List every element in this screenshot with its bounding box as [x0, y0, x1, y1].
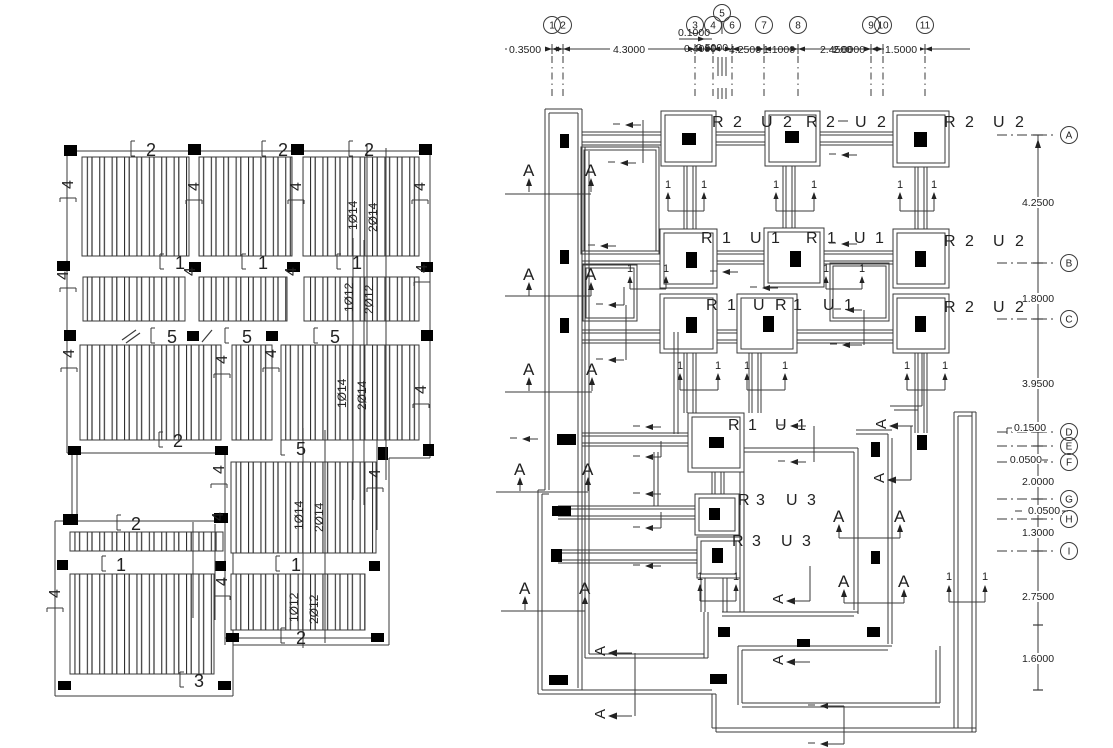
svg-text:0.1000: 0.1000	[678, 27, 710, 39]
svg-text:R: R	[944, 299, 956, 316]
svg-text:2: 2	[733, 114, 742, 131]
svg-text:2: 2	[364, 140, 374, 160]
svg-text:G: G	[1065, 495, 1073, 506]
svg-text:1Ø14: 1Ø14	[346, 200, 360, 230]
svg-text:5: 5	[167, 327, 177, 347]
svg-text:1: 1	[875, 230, 884, 247]
svg-text:R: R	[732, 533, 744, 550]
svg-text:2: 2	[278, 140, 288, 160]
svg-text:2.0000: 2.0000	[833, 44, 865, 56]
svg-text:4: 4	[186, 182, 203, 191]
svg-text:5: 5	[330, 327, 340, 347]
svg-text:7: 7	[761, 21, 767, 32]
svg-text:A: A	[514, 460, 526, 479]
svg-text:1: 1	[677, 360, 683, 372]
svg-text:4: 4	[263, 349, 280, 358]
svg-text:1: 1	[793, 297, 802, 314]
svg-text:U: U	[753, 297, 765, 314]
svg-text:U: U	[750, 230, 762, 247]
svg-text:3.9500: 3.9500	[1022, 378, 1054, 390]
svg-text:1Ø12: 1Ø12	[342, 282, 356, 312]
svg-text:A: A	[770, 655, 787, 665]
svg-text:F: F	[1066, 458, 1072, 469]
svg-text:2: 2	[1015, 233, 1024, 250]
svg-text:0.3500: 0.3500	[509, 44, 541, 56]
svg-text:2Ø12: 2Ø12	[307, 594, 321, 624]
svg-text:11: 11	[920, 21, 931, 32]
svg-text:1.6000: 1.6000	[1022, 653, 1054, 665]
svg-text:4: 4	[413, 385, 430, 394]
svg-text:1: 1	[744, 360, 750, 372]
svg-text:2: 2	[965, 299, 974, 316]
svg-text:A: A	[579, 579, 591, 598]
svg-text:2: 2	[783, 114, 792, 131]
svg-text:U: U	[855, 114, 867, 131]
svg-text:1: 1	[773, 179, 779, 191]
svg-text:4: 4	[60, 180, 77, 189]
svg-text:4: 4	[710, 21, 716, 32]
svg-text:U: U	[823, 297, 835, 314]
svg-text:5: 5	[719, 9, 725, 20]
svg-text:2.7500: 2.7500	[1022, 591, 1054, 603]
svg-text:4: 4	[47, 589, 64, 598]
svg-text:4: 4	[61, 349, 78, 358]
svg-text:A: A	[582, 460, 594, 479]
svg-text:0.0500: 0.0500	[1028, 505, 1060, 517]
svg-text:1: 1	[811, 179, 817, 191]
svg-text:3: 3	[752, 533, 761, 550]
svg-text:2Ø12: 2Ø12	[362, 284, 376, 314]
svg-text:1Ø12: 1Ø12	[287, 592, 301, 622]
svg-text:4: 4	[211, 465, 228, 474]
svg-text:R: R	[712, 114, 724, 131]
svg-text:U: U	[781, 533, 793, 550]
svg-text:A: A	[523, 265, 535, 284]
svg-text:1: 1	[942, 360, 948, 372]
svg-text:0.0500: 0.0500	[1010, 454, 1042, 466]
svg-text:1: 1	[859, 263, 865, 275]
svg-text:R: R	[775, 297, 787, 314]
svg-text:4.2500: 4.2500	[1022, 197, 1054, 209]
svg-text:D: D	[1065, 428, 1072, 439]
svg-text:4: 4	[214, 355, 231, 364]
svg-text:U: U	[993, 114, 1005, 131]
svg-text:A: A	[871, 473, 888, 483]
svg-text:4.2500: 4.2500	[729, 44, 761, 56]
svg-text:2Ø14: 2Ø14	[366, 202, 380, 232]
svg-text:R: R	[701, 230, 713, 247]
svg-text:4: 4	[367, 469, 384, 478]
svg-text:2: 2	[146, 140, 156, 160]
svg-text:1.1000: 1.1000	[763, 44, 795, 56]
svg-text:1: 1	[782, 360, 788, 372]
svg-text:A: A	[519, 579, 531, 598]
svg-text:4: 4	[414, 264, 431, 273]
svg-text:2: 2	[1015, 299, 1024, 316]
svg-text:A: A	[898, 572, 910, 591]
svg-text:1: 1	[352, 253, 362, 273]
svg-text:2: 2	[131, 514, 141, 534]
svg-text:2: 2	[173, 431, 183, 451]
svg-text:8: 8	[795, 21, 801, 32]
svg-text:1: 1	[771, 230, 780, 247]
svg-text:1.3000: 1.3000	[1022, 527, 1054, 539]
svg-text:0.5000: 0.5000	[696, 42, 728, 54]
svg-text:6: 6	[729, 21, 735, 32]
svg-text:R: R	[806, 114, 818, 131]
svg-text:1: 1	[823, 263, 829, 275]
svg-text:A: A	[523, 161, 535, 180]
svg-text:A: A	[833, 507, 845, 526]
svg-text:5: 5	[242, 327, 252, 347]
svg-text:1: 1	[627, 263, 633, 275]
svg-text:4: 4	[412, 182, 429, 191]
svg-text:4: 4	[214, 577, 231, 586]
svg-text:R: R	[728, 417, 740, 434]
svg-text:1: 1	[904, 360, 910, 372]
svg-text:A: A	[873, 419, 890, 429]
svg-text:I: I	[1068, 547, 1071, 558]
svg-text:4: 4	[283, 267, 300, 276]
svg-text:0.1500: 0.1500	[1014, 422, 1046, 434]
svg-text:A: A	[585, 265, 597, 284]
svg-text:1: 1	[727, 297, 736, 314]
svg-text:1Ø14: 1Ø14	[335, 378, 349, 408]
svg-text:A: A	[585, 161, 597, 180]
svg-text:4: 4	[210, 512, 227, 521]
svg-text:1: 1	[722, 230, 731, 247]
svg-text:H: H	[1065, 515, 1072, 526]
svg-text:A: A	[1066, 131, 1073, 142]
svg-text:1: 1	[116, 555, 126, 575]
svg-text:3: 3	[756, 492, 765, 509]
svg-text:1: 1	[258, 253, 268, 273]
svg-text:2: 2	[965, 114, 974, 131]
svg-text:2: 2	[965, 233, 974, 250]
svg-text:A: A	[586, 360, 598, 379]
svg-text:2: 2	[296, 628, 306, 648]
svg-text:R: R	[944, 233, 956, 250]
svg-text:10: 10	[877, 21, 889, 32]
svg-text:U: U	[993, 233, 1005, 250]
svg-text:B: B	[1066, 259, 1073, 270]
svg-text:2: 2	[560, 21, 566, 32]
svg-text:R: R	[806, 230, 818, 247]
svg-text:1: 1	[665, 179, 671, 191]
svg-text:E: E	[1066, 442, 1073, 453]
svg-text:R: R	[944, 114, 956, 131]
svg-text:1: 1	[701, 179, 707, 191]
svg-text:5: 5	[296, 439, 306, 459]
svg-text:4: 4	[182, 267, 199, 276]
svg-text:1: 1	[748, 417, 757, 434]
svg-text:2: 2	[877, 114, 886, 131]
svg-text:1: 1	[982, 571, 988, 583]
svg-text:3: 3	[802, 533, 811, 550]
svg-text:2.0000: 2.0000	[1022, 476, 1054, 488]
svg-text:1.8000: 1.8000	[1022, 293, 1054, 305]
svg-text:1: 1	[733, 571, 739, 583]
svg-text:2Ø14: 2Ø14	[312, 502, 326, 532]
svg-text:A: A	[523, 360, 535, 379]
svg-text:U: U	[761, 114, 773, 131]
svg-text:9: 9	[868, 21, 874, 32]
svg-text:1: 1	[715, 360, 721, 372]
svg-text:A: A	[592, 709, 609, 719]
svg-text:3: 3	[807, 492, 816, 509]
svg-text:U: U	[786, 492, 798, 509]
svg-text:4.3000: 4.3000	[613, 44, 645, 56]
svg-text:1: 1	[827, 230, 836, 247]
svg-text:U: U	[993, 299, 1005, 316]
svg-text:1: 1	[291, 555, 301, 575]
svg-text:2Ø14: 2Ø14	[355, 380, 369, 410]
svg-text:1Ø14: 1Ø14	[292, 500, 306, 530]
svg-text:A: A	[894, 507, 906, 526]
svg-text:3: 3	[194, 671, 204, 691]
svg-text:R: R	[706, 297, 718, 314]
svg-text:A: A	[770, 594, 787, 604]
svg-text:1.5000: 1.5000	[885, 44, 917, 56]
svg-text:1: 1	[946, 571, 952, 583]
svg-text:2: 2	[826, 114, 835, 131]
svg-text:1: 1	[897, 179, 903, 191]
svg-text:4: 4	[55, 271, 72, 280]
svg-text:C: C	[1065, 315, 1072, 326]
svg-text:1: 1	[663, 263, 669, 275]
svg-text:R: R	[738, 492, 750, 509]
svg-text:A: A	[592, 646, 609, 656]
svg-text:A: A	[838, 572, 850, 591]
svg-text:1: 1	[697, 571, 703, 583]
svg-text:1: 1	[931, 179, 937, 191]
svg-text:2: 2	[1015, 114, 1024, 131]
svg-text:4: 4	[288, 182, 305, 191]
